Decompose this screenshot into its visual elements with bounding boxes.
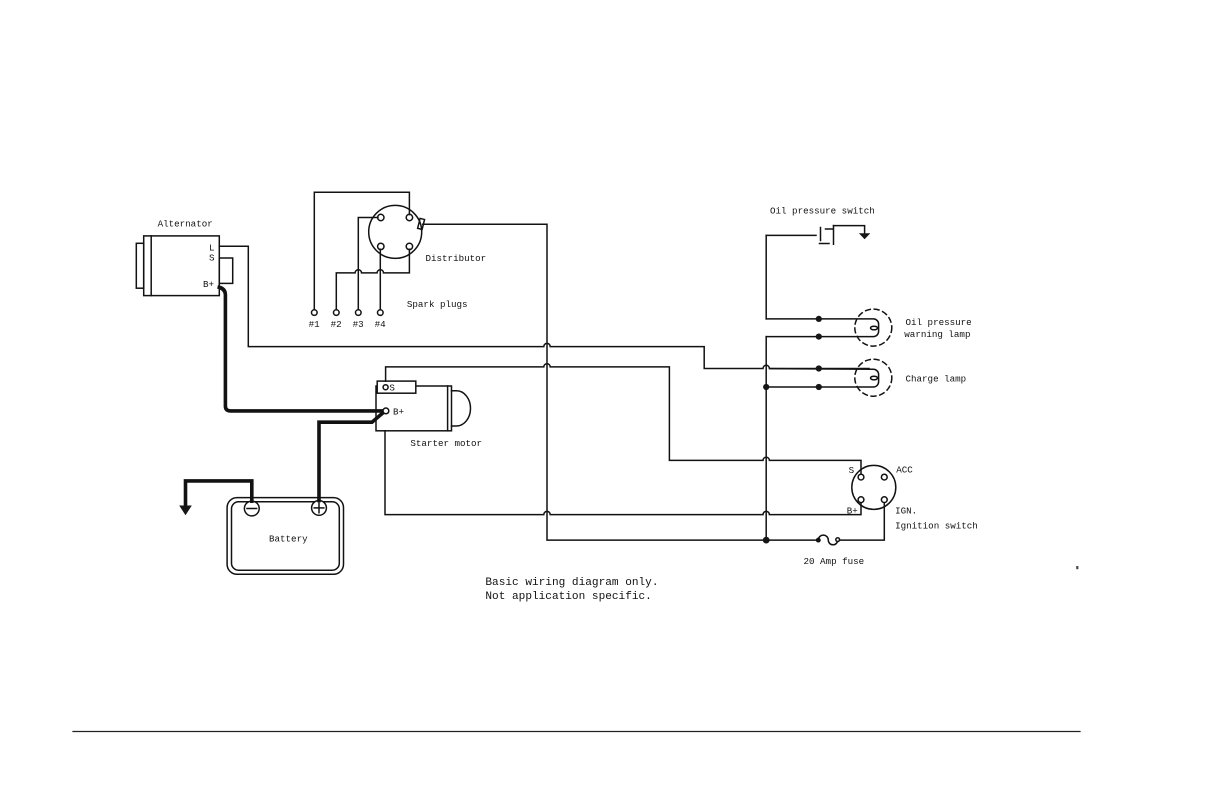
svg-text:#2: #2: [331, 319, 342, 330]
battery negative terminal: [244, 501, 259, 516]
svg-text:Battery: Battery: [269, 534, 308, 545]
ignition labels: [847, 465, 978, 532]
wire battery positive to starter B+ (heavy): [319, 413, 383, 501]
alternator body: [136, 236, 232, 296]
wire starter S to ignition S: [386, 364, 861, 475]
wire starter B+ to ignition B+: [385, 431, 861, 515]
svg-text:Not application specific.: Not application specific.: [485, 591, 651, 603]
distributor body: [369, 205, 425, 258]
ignition switch body: [852, 465, 896, 509]
footer rule: [73, 731, 1080, 733]
svg-text:warning lamp: warning lamp: [904, 329, 970, 340]
spark plug labels: [309, 319, 387, 330]
wire alternator B+ to starter B+ (heavy): [219, 287, 383, 411]
svg-text:Starter motor: Starter motor: [410, 438, 482, 449]
spark plug terminal 2: [334, 310, 340, 316]
starter B+ terminal: [383, 408, 389, 414]
junction dot oil lamp bottom: [816, 334, 822, 340]
battery positive terminal: [312, 501, 327, 516]
svg-text:Oil pressure: Oil pressure: [906, 317, 972, 328]
junction dot charge lamp bottom: [816, 384, 822, 390]
ground arrow at oil switch: [859, 233, 870, 239]
distributor cap hole 4: [406, 243, 412, 249]
svg-text:Ignition switch: Ignition switch: [895, 521, 978, 532]
wire battery negative to ground (heavy): [186, 481, 252, 506]
svg-text:Basic wiring diagram only.: Basic wiring diagram only.: [485, 577, 658, 589]
wire fuse to ignition IGN: [840, 503, 885, 540]
svg-text:B+: B+: [393, 407, 404, 418]
fuse F1 20 Amp: [817, 535, 840, 545]
ground arrow: [179, 506, 192, 516]
junction dot oil lamp top: [816, 316, 822, 322]
svg-text:#4: #4: [375, 319, 387, 330]
svg-text:B+: B+: [847, 506, 858, 517]
wire distributor to spark plug 1: [314, 192, 409, 309]
svg-text:ACC: ACC: [896, 465, 913, 476]
distributor cap hole 3: [378, 243, 384, 249]
svg-text:S: S: [389, 383, 395, 394]
oil pressure warning lamp: [766, 309, 892, 346]
label Oil pressure warning lamp: [904, 317, 971, 340]
spark plug terminal 4: [378, 310, 384, 316]
svg-text:Oil pressure switch: Oil pressure switch: [770, 206, 875, 217]
junction dot fuse rail: [763, 537, 770, 544]
svg-text:#1: #1: [309, 319, 321, 330]
svg-text:S: S: [209, 253, 215, 264]
svg-text:IGN.: IGN.: [895, 506, 917, 517]
svg-text:Charge lamp: Charge lamp: [906, 374, 967, 385]
svg-text:Spark plugs: Spark plugs: [407, 299, 468, 310]
distributor cap hole 1: [378, 214, 384, 220]
oil pressure switch symbol: [766, 226, 864, 245]
wire oil switch to lamp bus: [765, 235, 767, 540]
svg-text:B+: B+: [203, 279, 214, 290]
note text: [485, 577, 658, 603]
ignition hole B+: [858, 497, 864, 503]
distributor cap hole 2: [406, 214, 412, 220]
junction dot charge lamp bottom left: [763, 384, 769, 390]
wire distributor to spark plug 3: [358, 218, 378, 310]
svg-text:Distributor: Distributor: [426, 253, 487, 264]
charge lamp: [766, 359, 892, 396]
wire distributor to spark plug 4: [379, 249, 381, 309]
spark plug terminal 3: [356, 310, 362, 316]
ignition hole S: [858, 474, 864, 480]
junction dot charge lamp top: [816, 365, 822, 371]
svg-text:20 Amp fuse: 20 Amp fuse: [804, 556, 865, 567]
starter S terminal: [383, 385, 388, 390]
ignition hole ACC: [881, 474, 887, 480]
wire distributor output to fuse rail: [423, 224, 817, 540]
wire distributor to spark plug 2: [336, 249, 409, 309]
speck mark: [1076, 566, 1078, 569]
battery body: [227, 498, 343, 575]
starter motor body: [376, 381, 471, 431]
spark plug terminal 1: [312, 310, 318, 316]
svg-text:#3: #3: [353, 319, 364, 330]
ignition hole IGN: [881, 497, 887, 503]
wire alternator L to charge lamp top: [219, 246, 869, 368]
svg-text:S: S: [849, 465, 855, 476]
svg-text:Alternator: Alternator: [158, 219, 213, 230]
